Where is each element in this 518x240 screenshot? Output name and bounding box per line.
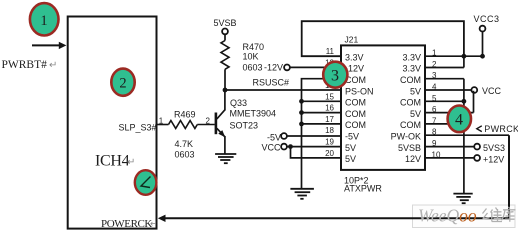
power VCC right bbox=[471, 86, 501, 96]
svg-text:VCC: VCC bbox=[261, 142, 281, 152]
node PWRCK bbox=[477, 124, 518, 134]
wire 3.3V loop pin 11 to pin 1 bbox=[302, 21, 464, 56]
power -5V bbox=[267, 133, 287, 143]
pin 20 5V bbox=[325, 149, 356, 164]
svg-text:10K: 10K bbox=[243, 51, 259, 61]
callout 1 bbox=[30, 3, 59, 35]
svg-text:3.3V: 3.3V bbox=[402, 53, 421, 63]
svg-text:RSUSC#: RSUSC# bbox=[253, 78, 290, 88]
svg-text:20: 20 bbox=[325, 149, 334, 158]
power VCC3 bbox=[474, 14, 500, 56]
ground right bus bbox=[453, 194, 472, 204]
node PWRBT# bbox=[2, 59, 58, 71]
svg-text:5V: 5V bbox=[345, 143, 356, 153]
pin 12 -12V bbox=[325, 58, 364, 73]
label 4.7K 0603 bbox=[175, 139, 195, 160]
wire SLP_S3# to R469 bbox=[157, 124, 168, 126]
svg-text:POWERCK: POWERCK bbox=[101, 218, 152, 230]
svg-text:-12V: -12V bbox=[264, 62, 283, 72]
node SLP_S3# bbox=[118, 123, 156, 133]
power -12V bbox=[264, 62, 290, 72]
resistor R470 bbox=[221, 34, 229, 90]
svg-text:↵: ↵ bbox=[127, 157, 135, 168]
svg-text:PW-OK: PW-OK bbox=[391, 132, 421, 142]
svg-text:WeeQoo: WeeQoo bbox=[418, 206, 477, 226]
pin 8 PW-OK bbox=[391, 128, 509, 142]
label RSUSC# bbox=[253, 78, 290, 88]
wire VCC to J21 pins 19 and 20 bbox=[287, 144, 341, 158]
callout 3 bbox=[323, 62, 347, 88]
pin 13 COM bbox=[325, 70, 366, 85]
power 5VS3 bbox=[474, 143, 505, 153]
svg-text:J21: J21 bbox=[345, 35, 359, 45]
resistor R469 bbox=[169, 121, 198, 129]
svg-text:5VSB: 5VSB bbox=[214, 18, 237, 28]
pin 11 3.3V bbox=[326, 47, 364, 62]
power +12V bbox=[474, 154, 504, 164]
svg-text:5V: 5V bbox=[345, 154, 356, 164]
svg-text:COM: COM bbox=[345, 109, 366, 119]
svg-text:COM: COM bbox=[345, 120, 366, 130]
svg-text:PS-ON: PS-ON bbox=[345, 86, 374, 96]
wire R469 to Q33 base bbox=[197, 124, 214, 126]
pin 3 COM bbox=[400, 71, 464, 85]
svg-text:SLP_S3#: SLP_S3# bbox=[118, 123, 156, 133]
pin 5 COM bbox=[400, 94, 464, 108]
svg-text:COM: COM bbox=[400, 98, 421, 108]
svg-text:11: 11 bbox=[326, 47, 335, 56]
wire -12V to J21 pin 12 bbox=[290, 66, 341, 68]
svg-text:ATXPWR: ATXPWR bbox=[344, 184, 382, 194]
wire Q33 emitter to ground bbox=[224, 136, 226, 154]
svg-text:R469: R469 bbox=[174, 109, 196, 119]
svg-text:3: 3 bbox=[331, 68, 339, 85]
watermark text WeeQoo bbox=[418, 206, 477, 226]
label 10P*2 ATXPWR bbox=[344, 175, 382, 193]
label ICH4 bbox=[95, 153, 135, 170]
svg-text:-5V: -5V bbox=[267, 133, 281, 143]
power 5VSB bbox=[214, 18, 237, 34]
pin 6 5V bbox=[410, 105, 474, 119]
transistor Q33 bbox=[216, 110, 225, 137]
ground bus right COM bbox=[462, 79, 467, 194]
IC U1 ICH4 box bbox=[68, 17, 157, 229]
junction node RSUSC bbox=[223, 88, 228, 93]
svg-text:VCC: VCC bbox=[482, 86, 502, 96]
pin number 1 of R469 bbox=[159, 116, 164, 125]
svg-text:4: 4 bbox=[455, 112, 463, 129]
svg-text:COM: COM bbox=[345, 98, 366, 108]
ground Q33 emitter bbox=[215, 154, 236, 163]
svg-text:COM: COM bbox=[400, 75, 421, 85]
label Q33 MMET3904 SOT23 bbox=[230, 98, 277, 130]
pin 18 -5V bbox=[325, 126, 359, 141]
svg-text:17: 17 bbox=[325, 115, 334, 124]
svg-text:+12V: +12V bbox=[483, 154, 504, 164]
pin 19 5V bbox=[325, 138, 356, 153]
svg-text:↵: ↵ bbox=[150, 219, 158, 229]
pin 16 COM bbox=[325, 104, 366, 119]
label R470 10K 0603 bbox=[243, 42, 265, 73]
wire Q33 collector up to node bbox=[224, 90, 226, 111]
svg-text:5V: 5V bbox=[410, 86, 421, 96]
svg-text:4.7K: 4.7K bbox=[175, 139, 194, 149]
svg-text:-5V: -5V bbox=[345, 132, 359, 142]
svg-text:2: 2 bbox=[119, 76, 126, 92]
pin 1 3.3V bbox=[402, 49, 484, 63]
watermark CJK 维库 bbox=[483, 207, 516, 222]
svg-text:COM: COM bbox=[400, 120, 421, 130]
svg-text:15: 15 bbox=[325, 92, 334, 101]
wire PWRBT# input arrow bbox=[32, 42, 66, 49]
svg-text:0603: 0603 bbox=[243, 63, 263, 73]
pin 14 PS-ON bbox=[325, 81, 373, 96]
wire -5V to J21 pin 18 bbox=[287, 135, 341, 137]
wire RSUSC# to J21 pin 14 bbox=[225, 89, 341, 91]
pin 15 COM bbox=[325, 92, 366, 107]
svg-text:ICH4: ICH4 bbox=[95, 153, 130, 170]
wire VCC right to pin 6 bbox=[473, 91, 475, 113]
callout 5 on ICH4 edge bbox=[135, 170, 157, 195]
svg-text:5VSB: 5VSB bbox=[398, 143, 421, 153]
svg-text:SOT23: SOT23 bbox=[230, 120, 259, 130]
power VCC left bbox=[261, 142, 286, 152]
wire PW-OK down and to POWERCK bbox=[158, 135, 509, 222]
ground bus left COM bbox=[299, 79, 341, 189]
callout 4 bbox=[448, 106, 471, 133]
label POWERCK bbox=[101, 218, 158, 230]
watermark box bbox=[413, 205, 516, 228]
pin 2 3.3V bbox=[402, 56, 463, 73]
svg-text:3.3V: 3.3V bbox=[345, 53, 364, 63]
label R469 bbox=[174, 109, 196, 119]
callout 2 bbox=[111, 69, 134, 96]
pin 4 5V bbox=[410, 83, 472, 97]
svg-text:18: 18 bbox=[325, 126, 334, 135]
pin 17 COM bbox=[325, 115, 366, 130]
svg-text:VCC3: VCC3 bbox=[474, 14, 500, 24]
ground left bus bbox=[290, 189, 314, 199]
pin 9 5VSB bbox=[398, 139, 474, 153]
pin 7 COM bbox=[400, 116, 464, 130]
svg-text:↵: ↵ bbox=[49, 60, 57, 71]
svg-text:1: 1 bbox=[40, 13, 47, 29]
svg-text:19: 19 bbox=[325, 138, 334, 147]
svg-text:Q33: Q33 bbox=[230, 98, 247, 108]
svg-text:PWRBT#: PWRBT# bbox=[2, 59, 48, 71]
svg-text:12V: 12V bbox=[405, 154, 421, 164]
svg-text:MMET3904: MMET3904 bbox=[230, 109, 277, 119]
svg-text:0603: 0603 bbox=[175, 150, 195, 160]
svg-text:5V: 5V bbox=[410, 109, 421, 119]
connector J21 box bbox=[341, 35, 425, 170]
svg-text:3.3V: 3.3V bbox=[402, 64, 421, 74]
svg-text:5VS3: 5VS3 bbox=[483, 143, 505, 153]
svg-text:16: 16 bbox=[325, 104, 334, 113]
svg-text:PWRCK: PWRCK bbox=[484, 124, 518, 134]
pin 10 12V bbox=[405, 150, 474, 164]
pin number 2 of R469 bbox=[206, 116, 211, 125]
